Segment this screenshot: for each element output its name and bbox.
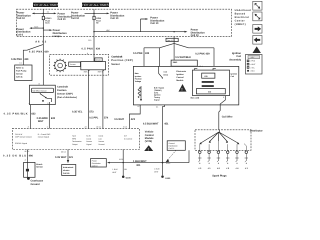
ground G105 at coil ground wire [154, 162, 171, 180]
wire VCM to knock sensor [3, 150, 33, 163]
svg-text:30 C4: 30 C4 [61, 150, 66, 153]
svg-text:REF A: REF A [84, 71, 90, 74]
svg-text:0.5 PNK: 0.5 PNK [133, 52, 143, 55]
svg-text:Signal: Signal [154, 99, 160, 102]
wire splice branch to coil pin D [195, 48, 214, 67]
svg-text:PRI: PRI [205, 75, 208, 78]
junction with arrows to Power Distribution Cell 6 and Lamps [29, 25, 52, 37]
svg-text:= BLK: = BLK [250, 70, 256, 73]
wire CKP shield label [95, 58, 102, 62]
svg-text:(UBEC): (UBEC) [235, 23, 246, 26]
svg-text:Ignition: Ignition [231, 72, 238, 75]
svg-text:S146: S146 [34, 25, 38, 28]
CKP sensor body [69, 62, 106, 74]
svg-text:Sensor: Sensor [16, 72, 23, 75]
svg-text:0.5 BLK/WHT: 0.5 BLK/WHT [143, 122, 159, 125]
note box fuel pump cell reference [15, 65, 32, 81]
vehicle control module VCM dashed box [12, 129, 139, 150]
svg-text:Assembly: Assembly [229, 58, 241, 61]
svg-text:439: 439 [24, 58, 29, 61]
warning triangle VCM [144, 145, 153, 151]
VCM internal pin function texts [15, 133, 133, 146]
svg-text:439: 439 [145, 52, 150, 55]
svg-text:S142: S142 [166, 162, 170, 165]
warning triangle inside coil box [179, 84, 187, 92]
label Crankshaft Position (CKP) Sensor [111, 56, 133, 66]
svg-text:Cell 10: Cell 10 [17, 17, 26, 20]
wire coil high tension lead to distributor [219, 96, 233, 130]
svg-text:C1: C1 [156, 106, 158, 109]
svg-text:Position (CKP): Position (CKP) [111, 59, 133, 62]
svg-text:Tachometer: Tachometer [72, 140, 82, 143]
wire middle fuse feed down to CKP shield [82, 32, 101, 62]
svg-text:451: 451 [164, 122, 169, 125]
wire coil ground 451 down to G105 [143, 105, 169, 175]
svg-text:Sensor: Sensor [98, 140, 104, 143]
label Ignition Coil Assembly [229, 52, 241, 61]
svg-text:Sensor (CMP): Sensor (CMP) [57, 92, 73, 95]
svg-text:Drive: Drive [164, 73, 169, 76]
power distribution reference box [91, 159, 107, 168]
UI icon up triangle [253, 46, 261, 53]
svg-text:Not used: Not used [191, 96, 200, 99]
svg-text:= YEL: = YEL [250, 66, 255, 69]
svg-text:= WHT: = WHT [250, 63, 257, 66]
svg-text:Cell 10: Cell 10 [150, 22, 159, 25]
svg-text:Distributor: Distributor [250, 130, 263, 133]
ignition coil assembly box U1 [133, 66, 238, 105]
svg-text:IC Control: IC Control [124, 137, 133, 140]
svg-text:cluster: cluster [63, 169, 70, 172]
svg-text:5 C3: 5 C3 [123, 126, 127, 129]
svg-text:1 BLK/: 1 BLK/ [154, 168, 160, 171]
svg-text:573: 573 [89, 111, 94, 114]
svg-text:Spark Plugs: Spark Plugs [212, 174, 227, 177]
svg-text:Sensor: Sensor [86, 140, 92, 143]
svg-text:(Part of distributor): (Part of distributor) [57, 96, 77, 99]
wire left branch rail [32, 9, 57, 16]
coil drive contact glyph [159, 66, 163, 78]
svg-text:439: 439 [44, 51, 49, 54]
svg-text:!: ! [181, 88, 182, 92]
svg-text:Coil: Coil [231, 75, 235, 78]
svg-text:Tach: Tach [72, 135, 76, 138]
svg-text:633: 633 [51, 117, 56, 120]
spark plugs [198, 158, 248, 164]
svg-text:496: 496 [29, 155, 34, 158]
camshaft position CMP sensor box [29, 82, 56, 104]
wire splice branch to coil pin B [159, 48, 161, 67]
wire CKP high signal to VCM [72, 70, 94, 129]
svg-text:1 BLK/WHT: 1 BLK/WHT [133, 160, 147, 163]
wire CKP low signal to VCM [89, 70, 108, 129]
svg-text:!: ! [148, 147, 149, 151]
wire splice feed below UBEC with connector label box [166, 37, 178, 44]
svg-text:Main: Main [135, 72, 139, 75]
svg-text:50-Hi: 50-Hi [86, 135, 91, 138]
VCM pin labels top [28, 126, 127, 129]
wire VCM ground pin down to splice S105 [119, 150, 123, 163]
UBEC underhood fuse block dashed box [17, 9, 232, 36]
svg-text:Cell 10: Cell 10 [191, 34, 200, 37]
node text Power Distribution Cell 10 (right of middle fuse) [110, 12, 124, 21]
UI icon prev arrow button [253, 36, 262, 45]
svg-text:Crankshaft: Crankshaft [111, 56, 122, 59]
svg-text:Crank: Crank [86, 137, 91, 140]
node text Power Distribution Cell 10 (far left) [17, 12, 31, 21]
svg-text:Sensor Signal: Sensor Signal [38, 136, 50, 139]
instrument cluster box [62, 165, 76, 176]
wire left fuse feed down through connector A6 C2 [29, 37, 49, 86]
svg-text:61 A: 61 A [45, 22, 50, 25]
CKP reluctor gear [53, 59, 67, 73]
svg-text:121: 121 [69, 156, 74, 159]
svg-text:1 BLK/: 1 BLK/ [112, 168, 118, 171]
legend key box [246, 55, 263, 75]
svg-text:Electronic: Electronic [176, 70, 187, 73]
ignition coil secondary inner box [193, 65, 230, 95]
svg-text:Sensor: Sensor [111, 63, 120, 66]
crankshaft position CKP sensor dashed box [50, 54, 109, 75]
label Vehicle Control Module (VCM) [145, 131, 154, 144]
label Underhood Bussed Electrical Center (UBEC) [235, 9, 251, 26]
wire splice branch to coil pin A [133, 48, 150, 67]
ground crankcase [27, 177, 44, 186]
UI icon next arrow button [253, 25, 262, 34]
label Ignition Coil (inner) [231, 72, 238, 78]
svg-text:A6 C2: A6 C2 [35, 40, 47, 43]
distributor rotor fan [199, 130, 239, 144]
svg-text:0.35 DK BLU: 0.35 DK BLU [3, 155, 26, 158]
svg-text:Output: Output [72, 143, 78, 146]
svg-text:301: 301 [136, 164, 141, 167]
svg-text:Ground: Ground [98, 143, 104, 146]
svg-text:RPM: RPM [72, 137, 76, 140]
svg-text:Module: Module [176, 79, 184, 82]
svg-text:Position: Position [135, 77, 142, 80]
spark plug wires [200, 154, 247, 159]
wire ignition control from coil to VCM [114, 105, 141, 129]
svg-text:G105: G105 [165, 177, 171, 180]
distributor tower circles [199, 151, 248, 154]
svg-text:0.5 WHT: 0.5 WHT [114, 118, 124, 121]
wire middle branch rail [85, 9, 110, 16]
svg-text:(VCM): (VCM) [145, 140, 152, 143]
svg-text:0.2 PNK 439: 0.2 PNK 439 [195, 53, 210, 56]
ground G108 below junction [112, 163, 131, 180]
svg-text:4 B 1: 4 B 1 [199, 65, 203, 68]
svg-text:Cell 10: Cell 10 [58, 18, 67, 21]
knock sensor box [24, 162, 44, 177]
svg-text:= PNK: = PNK [250, 60, 256, 63]
svg-text:Voltage: Voltage [135, 80, 141, 83]
svg-text:Cell 10: Cell 10 [110, 17, 119, 20]
svg-text:WHT: WHT [38, 120, 44, 123]
svg-text:G108: G108 [126, 177, 132, 180]
junction and arrow right to Power Distribution Cell [173, 29, 205, 38]
svg-text:HOT AT ALL TIMES: HOT AT ALL TIMES [32, 3, 58, 7]
svg-text:Cell 10: Cell 10 [71, 17, 80, 20]
wire horizontal rail inside UBEC to splice feed [93, 29, 174, 33]
svg-text:S105: S105 [119, 158, 123, 161]
svg-text:2: 2 [47, 126, 48, 129]
label HOT AT ALL TIMES (left) [32, 3, 58, 8]
wire CMP sensor ground to VCM [4, 105, 37, 129]
svg-text:HOT AT ALL TIMES: HOT AT ALL TIMES [82, 3, 108, 7]
svg-text:Cell 6: Cell 6 [16, 33, 23, 36]
node text Power Distribution Cell 6 [16, 28, 30, 37]
svg-text:S2: S2 [47, 11, 49, 14]
wire splice center branch with splice box 5842 [171, 43, 197, 66]
svg-text:Ignition: Ignition [176, 73, 184, 76]
svg-text:Cell 10: Cell 10 [92, 164, 98, 167]
wire VCM to instrument cluster [55, 150, 73, 164]
svg-text:Cell 14: Cell 14 [169, 147, 175, 150]
svg-text:Control: Control [176, 76, 184, 79]
svg-text:8: 8 [28, 126, 29, 129]
node text Power Distribution Cell 10 (left of middle fuse) [71, 12, 85, 21]
svg-text:301: 301 [124, 168, 127, 171]
svg-text:Sensor: Sensor [36, 166, 43, 169]
svg-text:0.5 PPL: 0.5 PPL [89, 116, 99, 119]
distributor cap terminal contacts [200, 141, 247, 151]
spark plug number labels [198, 167, 248, 170]
svg-text:CMP Sensor Ground: CMP Sensor Ground [15, 136, 32, 139]
svg-text:F10: F10 [88, 39, 91, 42]
label HOT AT ALL TIMES (middle) [82, 3, 109, 8]
svg-text:Crank: Crank [98, 135, 103, 138]
svg-text:24 C1: 24 C1 [96, 126, 101, 129]
svg-text:Ignition: Ignition [135, 75, 142, 78]
svg-text:ERCMS Signal: ERCMS Signal [15, 142, 28, 145]
fuse F2 COM fuse [93, 16, 102, 31]
svg-text:0.35 YEL: 0.35 YEL [72, 111, 83, 114]
svg-text:Qxx A-C2: Qxx A-C2 [167, 39, 175, 42]
svg-text:C1: C1 [19, 62, 21, 65]
distributor dashed box [195, 130, 263, 151]
node text Power Distribution Cell 10 (right of left rail) [58, 13, 72, 22]
fuse F1 ECM 1 fuse [42, 16, 52, 28]
svg-text:Coil: Coil [164, 71, 168, 74]
svg-text:Fuel Pump: Fuel Pump [16, 69, 27, 72]
wire stub up with arrow to Power Distribution Cell 10 [141, 17, 165, 32]
svg-text:0.35 PNK/BLK: 0.35 PNK/BLK [4, 112, 28, 115]
svg-text:Ground: Ground [31, 183, 40, 186]
svg-text:Coil Wire: Coil Wire [222, 116, 233, 119]
svg-text:0.35 WHT: 0.35 WHT [55, 156, 67, 159]
ground distribution cell reference box [166, 141, 186, 162]
svg-text:574: 574 [104, 116, 109, 119]
svg-text:36 C2: 36 C2 [25, 150, 30, 153]
svg-text:Lamps: Lamps [53, 35, 62, 38]
svg-text:0.5 PNK: 0.5 PNK [82, 47, 94, 50]
label Camshaft Position Sensor (CMP) [57, 86, 77, 99]
svg-text:CM Hi W: CM Hi W [15, 133, 22, 136]
svg-text:B + Crank CMP: B + Crank CMP [38, 133, 51, 136]
svg-text:632: 632 [31, 112, 36, 115]
wire CMP sensor signal to VCM [37, 105, 56, 129]
svg-text:23: 23 [85, 126, 87, 129]
svg-text:0.5 WHT/BLK: 0.5 WHT/BLK [175, 56, 191, 59]
svg-text:0.35 PNK: 0.35 PNK [29, 51, 43, 54]
wire diagonal branch to connector C1 [11, 44, 43, 65]
svg-text:439: 439 [96, 47, 101, 50]
svg-text:Sensor: Sensor [70, 63, 76, 66]
primary winding glyph inside coil box [138, 86, 142, 101]
svg-text:Cell 81: Cell 81 [63, 172, 70, 175]
svg-text:Cell 31: Cell 31 [16, 75, 23, 78]
svg-text:Refer to: Refer to [16, 66, 24, 69]
svg-text:Instrument: Instrument [63, 166, 74, 169]
splice S102 diagonals [144, 43, 214, 47]
svg-text:Ground: Ground [169, 142, 175, 145]
svg-text:0.35 PNK: 0.35 PNK [11, 58, 22, 61]
node text Power Distribution Lamps [53, 29, 67, 38]
svg-text:Distribution: Distribution [169, 144, 178, 147]
svg-text:Signal: Signal [86, 143, 92, 146]
UI icon resize arrow button 2 [253, 12, 262, 21]
ground rail horizontal with arrow to power distribution [107, 150, 189, 167]
UI icon resize arrow button 1 [253, 1, 262, 10]
svg-text:423: 423 [131, 118, 136, 121]
svg-text:Hall Effect Sensor: Hall Effect Sensor [32, 89, 47, 92]
